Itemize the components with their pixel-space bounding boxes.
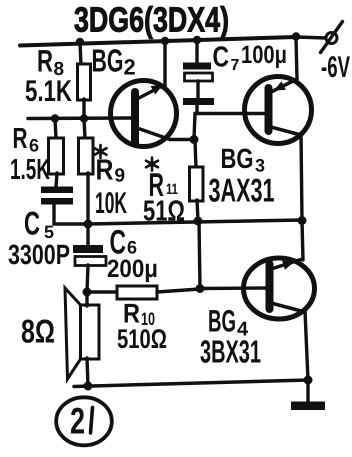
wire C7 top: [195, 40, 198, 63]
figure number 21: [56, 397, 112, 445]
terminal -6V: [321, 22, 343, 53]
wire bottom rail: [74, 380, 308, 387]
svg-text:6: 6: [29, 136, 39, 156]
resistor R10: [117, 286, 167, 354]
svg-text:3300P: 3300P: [8, 239, 70, 270]
node dot rail/R6: [51, 114, 59, 122]
node dot BG4 base: [196, 284, 205, 293]
node dot bottom/ground: [304, 376, 313, 385]
wire BG4 base: [200, 286, 266, 290]
wire speaker top: [85, 292, 88, 306]
svg-text:3DG6(3DX4): 3DG6(3DX4): [74, 1, 229, 40]
svg-text:-6V: -6V: [321, 51, 350, 84]
speaker 8 ohm: [21, 288, 99, 379]
svg-text:R: R: [37, 44, 53, 79]
node dot output/C6: [84, 220, 93, 229]
wire R11 node to BG4 base node: [199, 221, 200, 288]
resistor R6: [10, 123, 64, 186]
wire C6 bottom: [87, 265, 88, 292]
ground: [291, 402, 325, 411]
svg-text:C: C: [24, 205, 40, 242]
svg-text:1.5K: 1.5K: [10, 154, 50, 186]
wire ground stub: [306, 380, 309, 402]
node dot rail/C7: [193, 36, 201, 44]
wire R6 bottom: [56, 173, 57, 187]
capacitor C7: [183, 41, 287, 105]
svg-text:7: 7: [231, 57, 240, 74]
svg-text:R: R: [13, 123, 28, 155]
wire BG2 emitter to rail: [163, 41, 166, 86]
svg-text:10K: 10K: [95, 187, 127, 220]
wire C6 top: [86, 224, 89, 246]
svg-text:C: C: [213, 42, 230, 74]
wire top -6V rail: [20, 37, 296, 46]
wire R10 right: [157, 289, 200, 292]
wire R6 top: [55, 118, 56, 139]
svg-text:2: 2: [124, 55, 136, 80]
svg-text:2: 2: [70, 401, 85, 442]
wire node A to BG3 base: [194, 114, 265, 140]
wire R8 bottom: [82, 99, 85, 119]
transistor BG4: [200, 258, 315, 370]
svg-text:3AX31: 3AX31: [209, 172, 275, 209]
wire R11 top: [195, 140, 196, 168]
transistor BG3: [209, 77, 312, 209]
node dot speaker/R10: [83, 288, 92, 297]
wire C7 middle: [196, 81, 199, 98]
wire R9 top: [84, 118, 85, 139]
wire R10 left: [88, 290, 117, 293]
wire C5 to output node: [54, 204, 87, 224]
svg-text:9: 9: [115, 166, 126, 187]
svg-text:R: R: [96, 155, 114, 187]
resistor R8: [25, 44, 91, 109]
wire R11 bottom: [197, 200, 198, 221]
resistor R9: [79, 138, 128, 220]
svg-text:5.1K: 5.1K: [25, 75, 72, 108]
svg-text:BG: BG: [92, 43, 124, 79]
svg-text:8Ω: 8Ω: [21, 313, 55, 350]
wire BG3 emitter trunk: [296, 37, 297, 79]
wire R9 bottom: [86, 173, 89, 224]
node dot rail/BG3 emitter: [292, 32, 300, 40]
wire C7 stub: [195, 105, 198, 114]
capacitor C6: [73, 224, 158, 284]
capacitor C5: [8, 187, 73, 271]
wire output rail: [88, 220, 302, 224]
resistor R11: [143, 158, 203, 228]
wire speaker bottom: [87, 358, 88, 386]
node dot output/R11: [194, 217, 203, 226]
node dot rail/R8: [76, 38, 84, 46]
svg-text:100μ: 100μ: [241, 41, 287, 69]
wire BG3 collector trunk: [301, 134, 302, 220]
wire R8 top: [80, 42, 81, 65]
svg-text:BG: BG: [221, 143, 254, 174]
wire rail to terminal: [296, 37, 326, 38]
node dot bottom/speaker: [84, 382, 93, 391]
wire base bias rail: [28, 116, 133, 120]
transistor BG2: [92, 43, 177, 147]
wire BG4 collector trunk: [305, 311, 308, 380]
svg-text:510Ω: 510Ω: [117, 324, 167, 354]
node dot rail/R9: [80, 114, 88, 122]
node dot rail/BG2 emitter: [161, 37, 169, 45]
node A dot: [190, 135, 199, 144]
node dot output/BG3: [298, 216, 307, 225]
wire BG4 emitter trunk: [302, 221, 303, 260]
svg-text:3BX31: 3BX31: [200, 334, 261, 370]
svg-text:200μ: 200μ: [107, 255, 158, 283]
wire BG2 collector to node A: [170, 138, 194, 141]
